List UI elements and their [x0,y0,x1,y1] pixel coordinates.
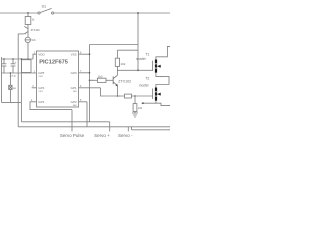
svg-text:VSS: VSS [71,53,77,57]
junction arrow base branch [92,80,94,82]
svg-text:GP0: GP0 [71,71,77,75]
wire top horizontal net B [90,44,139,46]
wire R2 to Q1 base [106,79,113,81]
node top rail T [137,12,139,14]
wire vertical net B [89,45,91,122]
wire servo plus tick [109,122,111,132]
wire battery+ top rail left [0,12,38,14]
capacitor C2 [11,58,17,73]
node pin8 junction [89,53,91,55]
transistor Q3 regulator [24,26,40,34]
wire +5 vertical left [20,59,22,122]
svg-text:1k0: 1k0 [98,74,103,78]
pin 6 stub GP1 [79,87,101,89]
wire servo pulse tick [71,110,73,132]
svg-text:VDD: VDD [38,53,45,57]
wire top rail right [54,12,170,14]
wire R4 to ground [134,96,136,113]
pin 5 stub GP2 [79,101,88,103]
svg-text:Servo -: Servo - [118,133,133,138]
node +5 [27,58,29,60]
crystal X1 [9,72,16,102]
wire servo pulse from GP3 [30,102,72,110]
svg-text:10k: 10k [138,106,143,110]
svg-text:OSC2: OSC2 [38,91,43,93]
pin 3 stub GP4 [32,87,37,89]
junction arrow gate line [119,95,121,97]
svg-text:AN1: AN1 [73,90,77,93]
resistor R5 gate [125,94,132,98]
node base branch junction [89,80,91,82]
wire R5 to T2 gate [132,95,153,97]
wire left edge [1,57,3,102]
svg-text:OSC1: OSC1 [38,76,43,78]
svg-text:T1: T1 [145,52,149,56]
capacitor C3 47u [10,60,31,78]
wire vertical net A [86,102,88,127]
svg-text:T2: T2 [145,76,149,80]
svg-text:4M: 4M [13,88,16,90]
resistor R4 pulldown [133,104,143,112]
node pin7 junction [89,72,91,74]
resistor R3 10k [115,58,125,66]
op-amp U1 PIC12F675 box [37,51,79,107]
wire lower bus jog [131,127,133,130]
wire gnd rail [2,72,37,74]
svg-text:GP4: GP4 [38,86,44,90]
svg-text:mosfet: mosfet [136,57,146,61]
svg-text:PIC12F675: PIC12F675 [39,60,68,66]
wire R1 to Q3 [27,25,29,28]
node R4 tap junction [134,95,136,97]
node emitter junction [117,95,119,97]
svg-text:ZTX109: ZTX109 [31,29,41,32]
resistor R1 [25,17,35,25]
wire T2 gate from GP1 [101,88,125,96]
wire +5 rail [2,58,34,60]
diode D1 zener [25,37,36,42]
wire bottom-left horizontal [2,101,22,103]
wire servo minus tick [127,127,129,132]
ground [132,113,138,117]
svg-text:Servo Pulse: Servo Pulse [60,133,85,138]
svg-text:GP1: GP1 [71,86,77,90]
wire T2 source line [142,103,171,105]
svg-text:GP5: GP5 [38,71,44,75]
transistor Q1 ZTX102 [113,66,131,96]
wire +5 rail to VDD pin [33,54,37,59]
wire regulator feed [27,13,29,17]
wire lower bus [18,126,170,128]
mosfet T2 [139,76,169,103]
svg-text:ZTX102: ZTX102 [118,80,131,84]
wire gnd vertical left [17,34,19,127]
mosfet T1 [136,46,170,84]
capacitor C1 [2,58,7,73]
svg-text:Servo +: Servo + [94,133,110,138]
svg-text:5v6: 5v6 [32,39,37,42]
node battery+ / regulator branch [27,12,29,14]
svg-text:AN2: AN2 [73,104,77,107]
svg-text:mosfet: mosfet [139,84,149,88]
svg-text:+: + [15,60,17,64]
pin 8 stub VSS [79,53,90,55]
wire base branch [90,79,98,81]
node source junction [142,102,144,104]
switch S1 [38,5,54,15]
wire upper bus [21,121,109,123]
wire Q3 to D1 [27,33,29,37]
svg-text:10k: 10k [120,62,125,66]
svg-text:1k: 1k [32,19,35,22]
wire D1 to +5 rail [27,43,29,59]
node gate line T1 [137,69,139,71]
svg-text:S1: S1 [42,5,47,9]
svg-text:GP2: GP2 [71,100,77,104]
resistor R2 1k0 [97,74,106,82]
wire T1 gate line [117,69,152,71]
wire Q3 emitter lead [18,33,24,35]
wire drain feed vertical [137,13,139,70]
svg-text:GP3: GP3 [38,100,44,104]
pin 7 stub GP0 [79,72,90,74]
wire R3 top to net [117,50,138,58]
